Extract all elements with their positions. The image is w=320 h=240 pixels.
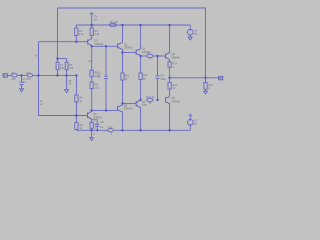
resistor R14 Q4 emitter bbox=[168, 62, 171, 68]
wire V1 stub bottom bbox=[189, 35, 191, 37]
junction rail3 cap bbox=[96, 129, 98, 131]
port OUT bbox=[219, 76, 223, 80]
wire V2 stub below bbox=[189, 125, 191, 130]
wire cap branch jog bbox=[92, 120, 98, 124]
junction Q1 emitter bbox=[91, 45, 93, 47]
junction input cap node bbox=[20, 74, 22, 76]
wire feedback top rail bbox=[58, 8, 206, 78]
wire Q3 emitter drop upper bbox=[140, 56, 142, 73]
wire Q5 emitter stub bbox=[91, 120, 93, 123]
wire gnd stub bottom mid bbox=[91, 130, 93, 137]
resistor R4 bias bbox=[75, 28, 78, 36]
svg-text:4.7k: 4.7k bbox=[94, 86, 100, 90]
svg-text:100p: 100p bbox=[160, 77, 166, 81]
resistor R8 chain upper bbox=[75, 95, 78, 102]
wire input cap to ground bbox=[21, 85, 23, 89]
resistor R17 lower vas oval bbox=[147, 98, 154, 101]
svg-text:R6 100: R6 100 bbox=[110, 20, 119, 24]
transistor Q8 bbox=[166, 97, 170, 105]
wire VAS emitter bus left bbox=[141, 55, 147, 57]
wire Q6 emitter drop bbox=[121, 115, 123, 131]
junction rail3 gnd bbox=[90, 129, 92, 131]
svg-text:IN: IN bbox=[3, 75, 6, 78]
resistor R3 feedback bbox=[65, 62, 68, 70]
svg-text:2N5401: 2N5401 bbox=[124, 107, 134, 111]
wire Q7 emitter drop bbox=[140, 107, 142, 130]
svg-text:R4: R4 bbox=[79, 29, 83, 33]
wire 91.6 chain bottom bbox=[91, 89, 93, 111]
junction lower vas left bbox=[139, 99, 141, 101]
capacitor C5 bottom bbox=[95, 124, 99, 126]
wire Q4 emitter R to out bbox=[169, 67, 171, 78]
wire 122.5 chain upper bbox=[122, 53, 124, 73]
wire feedback C bottom bbox=[57, 70, 59, 76]
junction rail3 Q6 bbox=[121, 129, 123, 131]
svg-text:47k: 47k bbox=[27, 77, 32, 81]
wire VAS emitter bus right bbox=[153, 55, 165, 57]
resistor R19 Q5 emitter bbox=[90, 122, 93, 128]
junction fb C bottom bbox=[56, 74, 58, 76]
wire 91.6 chain top bbox=[91, 46, 93, 70]
svg-text:C5: C5 bbox=[100, 120, 104, 124]
transistor Q2 bbox=[118, 42, 123, 50]
resistor R15 out drop bbox=[168, 82, 171, 89]
wire bottom rail left bbox=[76, 129, 107, 131]
svg-text:2N5401: 2N5401 bbox=[93, 115, 103, 119]
svg-text:Rs1: Rs1 bbox=[11, 71, 16, 75]
power flag arrow up V+ bbox=[90, 13, 93, 15]
junction rail3 Q8 bbox=[168, 129, 170, 131]
svg-text:2N5401: 2N5401 bbox=[171, 55, 181, 59]
svg-text:R7: R7 bbox=[148, 51, 152, 55]
junction rail2 x140.6 bbox=[139, 24, 141, 26]
wire tail 106 bottom bbox=[105, 79, 107, 110]
svg-text:478: 478 bbox=[142, 103, 147, 107]
wire emitter bus y46.3 bbox=[92, 45, 118, 47]
ground load bbox=[204, 91, 208, 94]
wire Q2 emitter to Q3 base bbox=[123, 51, 137, 53]
junction output left bbox=[168, 77, 170, 79]
wire Q5 emitter R to rail bbox=[91, 128, 93, 130]
junction rail2 x169.6 bbox=[168, 24, 170, 26]
junction R4 base node bbox=[75, 41, 77, 43]
wire Q1 base line bbox=[39, 41, 88, 43]
junction lower vas mid bbox=[156, 99, 158, 101]
resistor R7 vas oval bbox=[147, 54, 154, 57]
transistor Q4 bbox=[166, 52, 170, 60]
capacitor C3 tail bbox=[104, 76, 108, 78]
ground input cap bbox=[20, 89, 24, 92]
svg-text:R5: R5 bbox=[94, 29, 98, 33]
wire input node vertical bbox=[38, 42, 40, 116]
junction tail top bbox=[105, 45, 107, 47]
wire Q8 emitter drop bbox=[169, 105, 171, 131]
transistor Q6 bbox=[118, 103, 123, 114]
junction rail2 x92 bbox=[91, 24, 93, 26]
junction feedback node bbox=[56, 57, 58, 59]
junction chain 76 top bbox=[75, 74, 77, 76]
wire input line 2 bbox=[17, 74, 27, 76]
wire feedback R bottom bbox=[66, 70, 68, 76]
wire Q5 collector stub bbox=[91, 110, 93, 111]
transistor Q1 bbox=[88, 38, 92, 46]
svg-text:Rs2: Rs2 bbox=[26, 71, 31, 75]
wire chain 76.4 upper bbox=[75, 75, 77, 95]
resistor R12 bbox=[121, 73, 124, 80]
wire R5 bottom stub bbox=[91, 36, 93, 39]
junction Q5 collector bbox=[90, 109, 92, 111]
transistor Q7 bbox=[136, 100, 141, 107]
junction Q3 emitter bbox=[139, 55, 141, 57]
resistor R6 rail oval bbox=[110, 23, 117, 26]
svg-text:6.8k: 6.8k bbox=[94, 32, 100, 36]
wire bottom rail right bbox=[114, 129, 191, 131]
resistor R11 bbox=[90, 82, 93, 89]
power flag arrow up V2 bbox=[189, 114, 192, 116]
capacitor C2 feedback bbox=[56, 62, 59, 70]
junction bus B tail bbox=[105, 109, 107, 111]
svg-text:47k: 47k bbox=[12, 77, 17, 81]
wire 157.5 drop upper bbox=[157, 56, 159, 76]
wire gnd stub node 66 bbox=[66, 75, 68, 89]
voltage source V1 bbox=[187, 29, 193, 35]
resistor R16 load bbox=[204, 83, 207, 90]
wire R4 top stub bbox=[75, 25, 77, 28]
capacitor C1 input shunt bbox=[19, 82, 23, 84]
wire Q4 collector bbox=[169, 25, 171, 52]
junction rail2 x122.5 bbox=[121, 24, 123, 26]
capacitor C4 bbox=[156, 76, 160, 78]
wire V2 stub above bbox=[189, 117, 191, 120]
junction fb R bottom bbox=[65, 74, 67, 76]
wire chain 76.4 mid bbox=[75, 102, 77, 116]
wire R5 top stub bbox=[91, 25, 93, 28]
resistor R18 bottom rail oval bbox=[108, 129, 114, 132]
resistor Rs2 input series bbox=[27, 74, 33, 77]
port IN bbox=[3, 74, 7, 78]
junction output load bbox=[204, 77, 206, 79]
wire 122.5 chain lower bbox=[122, 80, 124, 103]
ground V1 bbox=[188, 37, 192, 40]
wire Q2 collector bbox=[122, 25, 124, 42]
wire load R16 top stub bbox=[205, 78, 207, 83]
wire V+ flag stem bbox=[91, 14, 93, 25]
wire R4 bottom stub bbox=[75, 36, 77, 42]
wire chain 76.4 lower bbox=[75, 116, 77, 123]
wire input line bbox=[7, 74, 11, 76]
junction Q2 emitter bbox=[121, 51, 123, 53]
svg-text:R17 47: R17 47 bbox=[146, 95, 155, 99]
wire feedback jog bbox=[58, 59, 67, 63]
svg-text:R18: R18 bbox=[108, 126, 113, 130]
svg-text:10u: 10u bbox=[97, 75, 102, 79]
wire input cap stub bbox=[21, 75, 23, 81]
wire lower bus A bbox=[123, 103, 137, 105]
wire V1 stub top bbox=[189, 25, 191, 29]
junction lower base node bbox=[75, 114, 77, 116]
wire R15 bottom stub bbox=[169, 89, 171, 96]
resistor R5 load Q1 bbox=[90, 28, 93, 36]
voltage source V2 bbox=[187, 119, 193, 125]
wire Q3 emitter drop lower bbox=[140, 80, 142, 100]
wire 157.5 drop lower bbox=[157, 79, 159, 100]
junction input node bbox=[37, 74, 39, 76]
junction rail3 Q7 bbox=[139, 129, 141, 131]
wire Q3 collector bbox=[140, 25, 142, 49]
svg-text:2N5401: 2N5401 bbox=[94, 42, 104, 46]
svg-text:out: out bbox=[219, 77, 223, 80]
svg-text:dr: dr bbox=[40, 99, 42, 103]
svg-text:47k: 47k bbox=[69, 66, 74, 70]
wire output bbox=[170, 77, 219, 79]
svg-text:2.2k: 2.2k bbox=[79, 32, 85, 36]
junction Q6 collector bbox=[121, 102, 123, 104]
wire tail 106 top bbox=[105, 46, 107, 75]
wire R15 top stub bbox=[169, 78, 171, 83]
resistor Rs1 input series bbox=[12, 74, 18, 77]
junction vas mid bbox=[156, 55, 158, 57]
resistor R10 bbox=[90, 70, 93, 76]
transistor Q5 bbox=[88, 111, 92, 119]
wire cap branch bottom bbox=[96, 127, 98, 130]
wire feedback C branch bbox=[57, 59, 59, 63]
wire Q4 emitter stub bbox=[169, 60, 171, 61]
transistor Q3 bbox=[136, 49, 141, 56]
wire lower base line bbox=[39, 115, 88, 117]
svg-text:39p: 39p bbox=[60, 66, 65, 70]
wire lower bus B bbox=[92, 109, 118, 111]
svg-text:2N5401: 2N5401 bbox=[171, 99, 181, 103]
wire input line 3 bbox=[33, 74, 77, 76]
ground bottom mid bbox=[90, 138, 94, 141]
resistor R9 chain lower bbox=[75, 122, 78, 129]
wire V+ rail bbox=[76, 24, 190, 26]
resistor R13 bbox=[139, 73, 142, 80]
wire 91.6 chain mid bbox=[91, 77, 93, 82]
svg-text:2N5401: 2N5401 bbox=[124, 46, 134, 50]
wire chain 76.4 to rail bbox=[75, 128, 77, 131]
wire load R16 to gnd bbox=[205, 89, 207, 91]
ground node 66 bbox=[65, 90, 69, 93]
